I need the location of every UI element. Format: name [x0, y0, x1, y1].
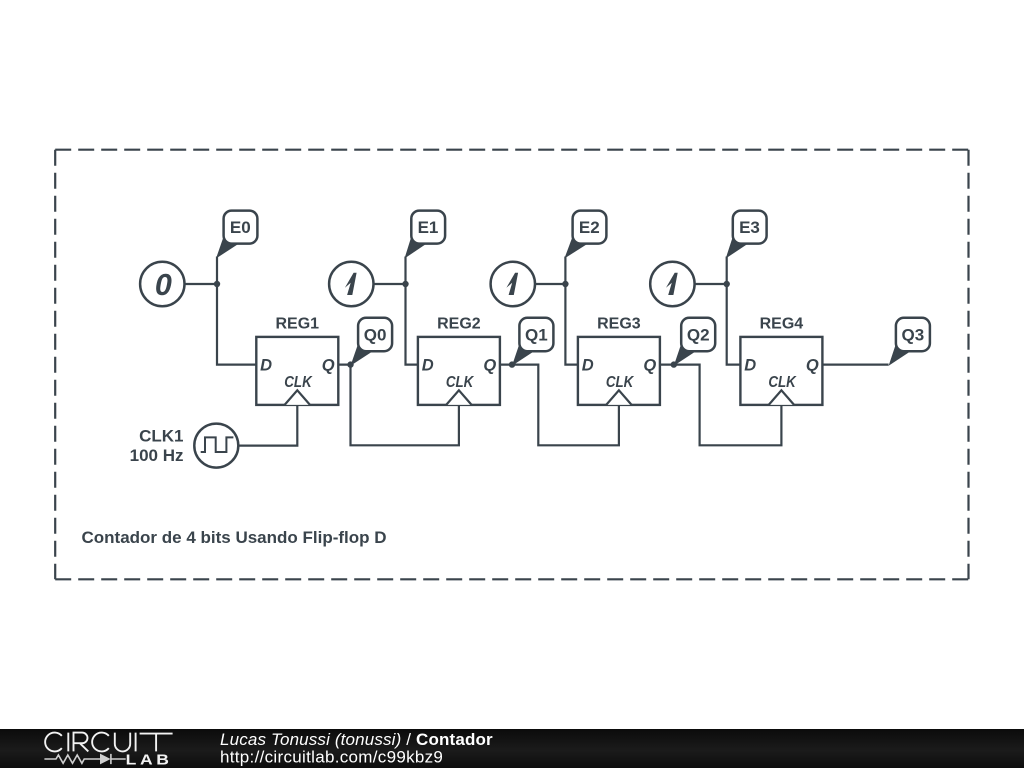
svg-text:CLK: CLK — [606, 374, 635, 391]
svg-text:Q3: Q3 — [902, 326, 925, 345]
svg-text:REG2: REG2 — [437, 315, 481, 332]
svg-text:D: D — [744, 356, 756, 374]
svg-text:CLK: CLK — [284, 374, 313, 391]
svg-text:E0: E0 — [230, 218, 251, 237]
svg-text:CLK1: CLK1 — [139, 426, 183, 445]
svg-text:Lucas Tonussi (tonussi) / Cont: Lucas Tonussi (tonussi) / Contador — [220, 730, 493, 749]
svg-text:http://circuitlab.com/c99kbz9: http://circuitlab.com/c99kbz9 — [220, 747, 443, 766]
svg-text:E3: E3 — [739, 218, 760, 237]
svg-text:Q: Q — [806, 356, 819, 374]
svg-text:100 Hz: 100 Hz — [130, 446, 184, 465]
svg-text:D: D — [260, 356, 272, 374]
svg-text:0: 0 — [155, 268, 172, 302]
svg-text:Q2: Q2 — [687, 326, 710, 345]
svg-text:Contador de 4 bits Usando Flip: Contador de 4 bits Usando Flip-flop D — [82, 528, 387, 547]
svg-text:LAB: LAB — [126, 753, 173, 768]
svg-text:Q: Q — [643, 356, 656, 374]
svg-text:D: D — [582, 356, 594, 374]
svg-text:CLK: CLK — [768, 374, 797, 391]
svg-text:REG3: REG3 — [597, 315, 641, 332]
svg-text:CLK: CLK — [446, 374, 475, 391]
svg-text:REG4: REG4 — [760, 315, 804, 332]
svg-text:REG1: REG1 — [276, 315, 320, 332]
svg-text:Q0: Q0 — [364, 326, 387, 345]
svg-text:E2: E2 — [579, 218, 600, 237]
svg-text:D: D — [422, 356, 434, 374]
svg-text:Q: Q — [322, 356, 335, 374]
svg-text:E1: E1 — [418, 218, 439, 237]
svg-text:Q1: Q1 — [525, 326, 548, 345]
svg-text:Q: Q — [483, 356, 496, 374]
